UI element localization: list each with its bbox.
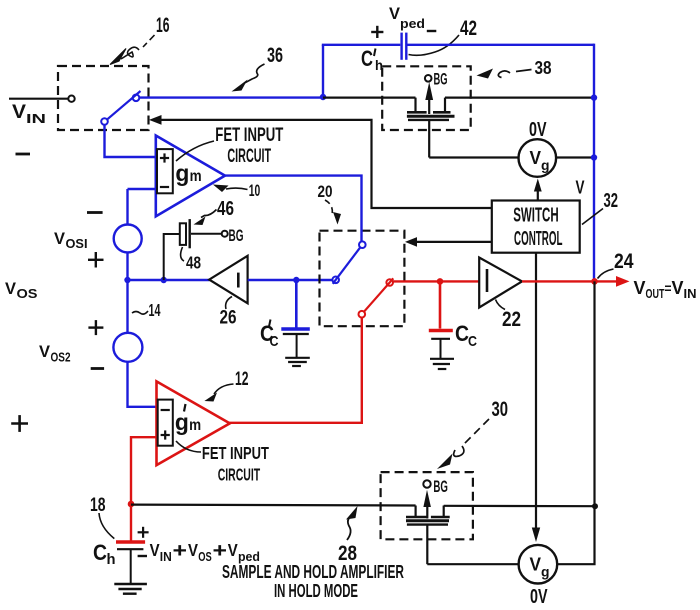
voltage source Vg (bottom) <box>519 545 558 584</box>
switch 16 blade <box>107 91 141 120</box>
wire: branch up to capacitor 46 <box>164 234 180 280</box>
wire: VIN input lead <box>9 98 68 100</box>
minus sign for Vped <box>427 30 437 32</box>
capacitor Cc lower plate <box>431 338 450 340</box>
svg-text:FET INPUT: FET INPUT <box>202 443 269 463</box>
capacitor 46 left plate (rectangle) <box>180 223 186 245</box>
svg-text:g: g <box>541 157 550 173</box>
node: junction blue line 36 and top rail <box>320 94 326 100</box>
svg-text:+: + <box>173 540 188 562</box>
leader for 32 <box>582 209 603 225</box>
BG terminal circle of capacitor 46 <box>222 231 228 237</box>
node: red junction at right rail output <box>591 278 598 285</box>
wire: red pivot down to op-amp 12 output <box>229 318 362 423</box>
svg-text:0V: 0V <box>529 119 547 141</box>
svg-text:V: V <box>39 342 51 361</box>
switch 20 red upper contact circle <box>386 279 393 286</box>
dashed box 30 (bottom transistor) <box>381 472 473 539</box>
leader for 48 <box>181 247 184 261</box>
wire: blue right rail down to output node <box>593 44 595 282</box>
svg-text:OS: OS <box>198 550 212 564</box>
svg-text:V: V <box>12 102 26 123</box>
wire: VOS1 to VOS2 <box>126 253 128 334</box>
svg-text:42: 42 <box>460 17 477 40</box>
plus sign below VOS1 label <box>88 252 104 268</box>
arrowhead up into Vg <box>534 179 542 192</box>
svg-text:V: V <box>530 554 542 575</box>
leader for 30 <box>463 419 489 445</box>
svg-text:30: 30 <box>492 398 509 421</box>
wire: capacitor 46 to BG terminal <box>191 233 222 235</box>
svg-text:16: 16 <box>156 14 170 37</box>
op-amp 10 plus sign <box>160 153 169 162</box>
node: junction for capacitor 46 branch <box>161 277 167 283</box>
voltage source Vg (top) <box>519 139 557 177</box>
switch 16 pivot contact circle <box>101 118 108 125</box>
switch 20 red pivot circle <box>359 311 366 318</box>
svg-text:18: 18 <box>90 494 106 516</box>
node: blue dot on right rail at transistor 38 lead <box>591 94 597 100</box>
leader arrow for 36 <box>245 64 265 83</box>
svg-text:V: V <box>188 540 198 560</box>
leader for 42 <box>409 35 460 55</box>
svg-text:BG: BG <box>229 226 244 245</box>
svg-text:OS2: OS2 <box>51 351 71 365</box>
svg-text:IN: IN <box>684 287 697 301</box>
numeral 1 inside buffer 26 <box>237 273 240 288</box>
ground below Ch <box>114 584 147 594</box>
svg-text:14: 14 <box>149 300 161 320</box>
leader for 46 <box>201 210 217 218</box>
switch 20 blue blade <box>333 247 361 283</box>
wire: black source lead out of transistor 38 <box>445 96 594 98</box>
svg-text:SAMPLE AND HOLD AMPLIFIER: SAMPLE AND HOLD AMPLIFIER <box>222 561 404 582</box>
svg-text:V: V <box>5 279 17 298</box>
svg-text:=: = <box>665 280 672 296</box>
wire: blue riser to top rail <box>322 45 324 98</box>
capacitor Cc red plate <box>429 329 453 332</box>
svg-text:IN: IN <box>26 111 46 126</box>
leader for 10 <box>226 188 248 189</box>
capacitor C'c lower plate <box>283 333 309 335</box>
svg-text:h: h <box>107 551 116 568</box>
capacitor C'c blue plate <box>281 327 310 330</box>
svg-text:CONTROL: CONTROL <box>514 228 563 250</box>
wire: switch control up to Vg <box>537 189 539 201</box>
transistor 30 BG terminal circle <box>423 480 430 487</box>
svg-text:38: 38 <box>535 57 552 78</box>
wire: down to capacitor C'c <box>295 280 298 328</box>
svg-text:+: + <box>213 540 228 562</box>
minus sign above VOS1 <box>87 211 103 214</box>
wire: black right rail below output <box>557 281 594 564</box>
wire 36: blue feedback line to top rail <box>139 96 323 98</box>
wire: top rail left of capacitor 42 <box>322 44 401 46</box>
svg-text:V: V <box>150 540 160 560</box>
ground below C'c <box>285 358 310 366</box>
svg-text:C: C <box>361 46 373 71</box>
voltage source VOS1 circle <box>114 225 142 253</box>
svg-text:BG: BG <box>434 70 448 89</box>
leader for 26 <box>226 297 232 310</box>
leader for 38 <box>516 70 532 72</box>
plus sign bottom left margin <box>11 415 28 432</box>
svg-text:ped: ped <box>400 16 425 31</box>
op-amp 12 input rectangle <box>158 400 173 446</box>
minus sign at Ch <box>138 555 147 557</box>
leader for 22 <box>496 300 506 310</box>
dashed box 38 (hold switch transistor) <box>382 66 471 130</box>
svg-text:OSI: OSI <box>66 237 88 251</box>
svg-text:V: V <box>672 278 684 298</box>
SWITCH CONTROL box 32 <box>492 201 580 253</box>
node: blue dot on right rail at Vg lead <box>591 154 597 160</box>
capacitor Ch red plate <box>116 540 145 543</box>
svg-text:24: 24 <box>614 250 634 273</box>
wire: C'c to ground <box>296 334 298 357</box>
leader for 20 <box>325 200 332 215</box>
leader for 18 <box>99 513 114 539</box>
transistor 38 BG terminal circle <box>425 75 432 82</box>
leader arrow for 16 <box>121 35 155 59</box>
wire: op-amp 10 minus input <box>128 188 156 190</box>
switch 20 blue upper contact circle <box>359 241 366 248</box>
wire: transistor 30 right lead to rail <box>444 505 595 508</box>
arrowhead down into bottom Vg <box>532 528 540 543</box>
svg-text:0V: 0V <box>530 586 548 608</box>
svg-text:FET INPUT: FET INPUT <box>215 125 283 146</box>
svg-text:20: 20 <box>318 183 333 201</box>
dashed box 20 (mode switch) <box>320 231 405 327</box>
svg-text:32: 32 <box>604 189 619 212</box>
wire: buffer 22 output to VOUT <box>522 280 618 282</box>
svg-text:36: 36 <box>267 44 283 67</box>
plus sign above VOS2 <box>88 320 103 335</box>
svg-text:CIRCUIT: CIRCUIT <box>227 146 271 167</box>
voltage source VOS2 circle <box>113 333 142 362</box>
switch 20 blue pivot circle <box>332 277 339 284</box>
plus sign at Ch <box>138 527 149 538</box>
svg-text:26: 26 <box>220 308 237 329</box>
control wire from switch control to box 20 <box>417 241 492 243</box>
op-amp 12 minus sign <box>161 409 170 411</box>
wire: transistor 38 gate to Vg circle <box>429 156 518 158</box>
buffer amplifier 22 <box>479 258 522 308</box>
wire: op-amp 10 output to switch 20 <box>225 176 362 242</box>
arrowhead into box 16 <box>149 115 162 125</box>
plus sign for Vped <box>371 26 383 38</box>
transistor 30 back-gate arrow <box>423 490 431 507</box>
transistor 38 <box>407 98 455 158</box>
svg-text:SWITCH: SWITCH <box>513 205 559 227</box>
svg-text:g: g <box>541 564 550 580</box>
switch 20 red blade <box>364 278 393 311</box>
node: junction for capacitor C'c <box>293 277 299 283</box>
svg-text:m: m <box>189 417 201 434</box>
minus sign below VIN <box>16 153 31 156</box>
numeral 1 inside buffer 22 <box>486 269 489 292</box>
node: red junction at Ch <box>128 501 135 508</box>
ground below Cc <box>430 359 454 369</box>
wire: red contact to buffer 22 <box>393 280 479 282</box>
switch 16 upper contact circle <box>133 95 140 102</box>
wire: transistor 30 gate to bottom Vg <box>427 563 518 565</box>
node: VIN input terminal circle <box>68 96 74 102</box>
wire: minus input down to VOS1 <box>126 189 128 225</box>
svg-text:BG: BG <box>433 477 448 496</box>
svg-text:V: V <box>530 147 542 168</box>
svg-text:m: m <box>190 168 202 185</box>
wire: buffer 26 output to switch 20 <box>248 279 333 281</box>
svg-text:g: g <box>175 409 189 435</box>
wire: blue line from VOS junction to buffer 26 <box>128 279 210 281</box>
node: junction at buffer input line <box>124 277 130 283</box>
svg-text:C: C <box>468 333 477 350</box>
svg-text:C: C <box>270 333 279 350</box>
control wire from switch control to box 16 <box>161 120 492 208</box>
arrowhead into box 20 <box>405 237 417 247</box>
svg-text:OUT: OUT <box>646 287 665 301</box>
svg-text:CIRCUIT: CIRCUIT <box>218 465 261 485</box>
svg-text:IN HOLD MODE: IN HOLD MODE <box>274 580 358 601</box>
node: red junction at capacitor Cc <box>437 278 444 285</box>
svg-text:OS: OS <box>17 287 38 301</box>
svg-text:V: V <box>54 229 66 248</box>
svg-text:V: V <box>576 177 585 198</box>
capacitor 46 right plate <box>188 219 190 248</box>
svg-text:V: V <box>634 278 646 298</box>
minus sign below VOS2 <box>91 367 104 370</box>
svg-text:g: g <box>175 160 189 186</box>
wire: black drain lead into transistor 38 <box>323 96 416 98</box>
svg-text:10: 10 <box>249 181 260 200</box>
buffer amplifier 26 <box>209 256 247 303</box>
op-amp 10 input rectangle <box>157 149 173 193</box>
svg-text:V: V <box>389 4 401 23</box>
output arrowhead VOUT <box>616 276 630 287</box>
wire: VOS2 down to op-amp 12 minus input <box>128 362 157 407</box>
wire: switch 16 pivot down to op-amp 10 plus input <box>105 125 156 157</box>
op-amp 12 plus sign <box>161 430 170 439</box>
dashed box 16 (sampling switch) <box>58 66 149 130</box>
svg-text:22: 22 <box>502 308 521 331</box>
svg-text:46: 46 <box>217 198 234 220</box>
leader from FET INPUT to op-amp 10 <box>176 141 214 161</box>
leader from op-amp 12 to FET INPUT <box>176 441 201 452</box>
leader for 12 <box>214 384 234 394</box>
wire: black line from Ch node to transistor 30 <box>131 504 416 507</box>
capacitor 42 plates <box>402 33 407 60</box>
wire: down to capacitor Cc <box>439 281 442 328</box>
svg-text:IN: IN <box>160 550 172 564</box>
leader tilde for 14 <box>132 311 148 314</box>
svg-text:48: 48 <box>186 253 201 273</box>
transistor 38 back-gate arrow <box>425 82 433 100</box>
capacitor Ch lower plate <box>117 548 143 550</box>
svg-text:V: V <box>228 540 238 560</box>
op-amp 12 (g'm) <box>157 381 230 465</box>
leader for 24 <box>598 269 614 279</box>
svg-text:C: C <box>455 321 469 346</box>
node: black junction on right rail at line from Ch <box>592 503 598 509</box>
op-amp 10 minus sign <box>160 186 169 188</box>
svg-text:C: C <box>93 540 107 565</box>
wire: Ch to ground <box>130 549 132 583</box>
wire: switch control down to bottom Vg <box>535 253 537 528</box>
wire: top rail right of capacitor 42 <box>408 44 595 46</box>
op-amp 10 (gm) <box>156 136 225 217</box>
leader lightning for 28 <box>347 513 353 540</box>
wire: Vg top to right rail <box>556 156 594 158</box>
svg-text:12: 12 <box>235 369 249 390</box>
transistor 30 <box>406 505 450 564</box>
wire: Cc to ground <box>440 339 442 358</box>
wire: op-amp 12 plus input <box>131 437 157 540</box>
